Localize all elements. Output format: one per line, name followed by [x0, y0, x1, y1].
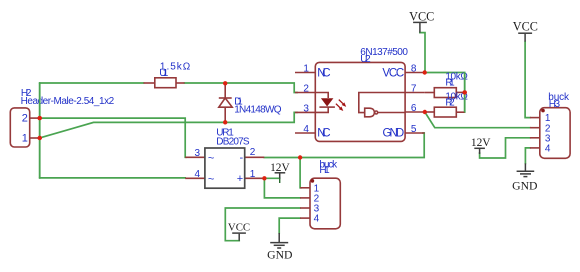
- svg-text:+: +: [237, 173, 243, 185]
- svg-text:U1: U1: [159, 68, 168, 79]
- svg-text:1: 1: [303, 64, 309, 75]
- svg-text:NC: NC: [317, 67, 330, 79]
- svg-text:~: ~: [208, 153, 214, 165]
- svg-text:VCC: VCC: [513, 20, 538, 34]
- svg-text:12V: 12V: [270, 162, 290, 174]
- svg-text:2: 2: [22, 112, 28, 124]
- svg-text:GND: GND: [383, 127, 405, 139]
- svg-text:12V: 12V: [471, 137, 491, 149]
- svg-text:6: 6: [411, 103, 417, 114]
- svg-text:4: 4: [545, 144, 551, 155]
- svg-text:1N4148WQ: 1N4148WQ: [234, 105, 282, 116]
- svg-text:NC: NC: [317, 127, 330, 139]
- svg-text:4: 4: [314, 214, 320, 225]
- svg-text:1: 1: [250, 169, 256, 180]
- svg-text:-: -: [240, 152, 244, 164]
- svg-text:R2: R2: [445, 97, 455, 108]
- svg-text:7: 7: [411, 84, 417, 95]
- svg-text:2: 2: [250, 147, 256, 158]
- svg-text:1: 1: [22, 132, 28, 144]
- svg-text:GND: GND: [267, 248, 292, 261]
- svg-text:~: ~: [208, 174, 214, 186]
- svg-text:GND: GND: [512, 180, 537, 193]
- svg-text:3: 3: [303, 104, 309, 115]
- svg-text:3: 3: [194, 148, 200, 159]
- svg-text:VCC: VCC: [409, 10, 434, 24]
- svg-text:2: 2: [303, 84, 309, 95]
- svg-text:5: 5: [411, 124, 417, 135]
- svg-text:DB207S: DB207S: [216, 137, 250, 148]
- svg-text:Header-Male-2.54_1x2: Header-Male-2.54_1x2: [21, 96, 115, 107]
- svg-text:4: 4: [194, 169, 200, 180]
- svg-text:4: 4: [303, 124, 309, 135]
- svg-text:R1: R1: [445, 78, 455, 89]
- svg-text:H1: H1: [319, 165, 330, 176]
- svg-text:H3: H3: [549, 99, 561, 110]
- svg-text:U2: U2: [360, 54, 371, 65]
- svg-text:VCC: VCC: [382, 67, 404, 79]
- svg-text:8: 8: [411, 64, 417, 75]
- svg-text:VCC: VCC: [228, 222, 250, 234]
